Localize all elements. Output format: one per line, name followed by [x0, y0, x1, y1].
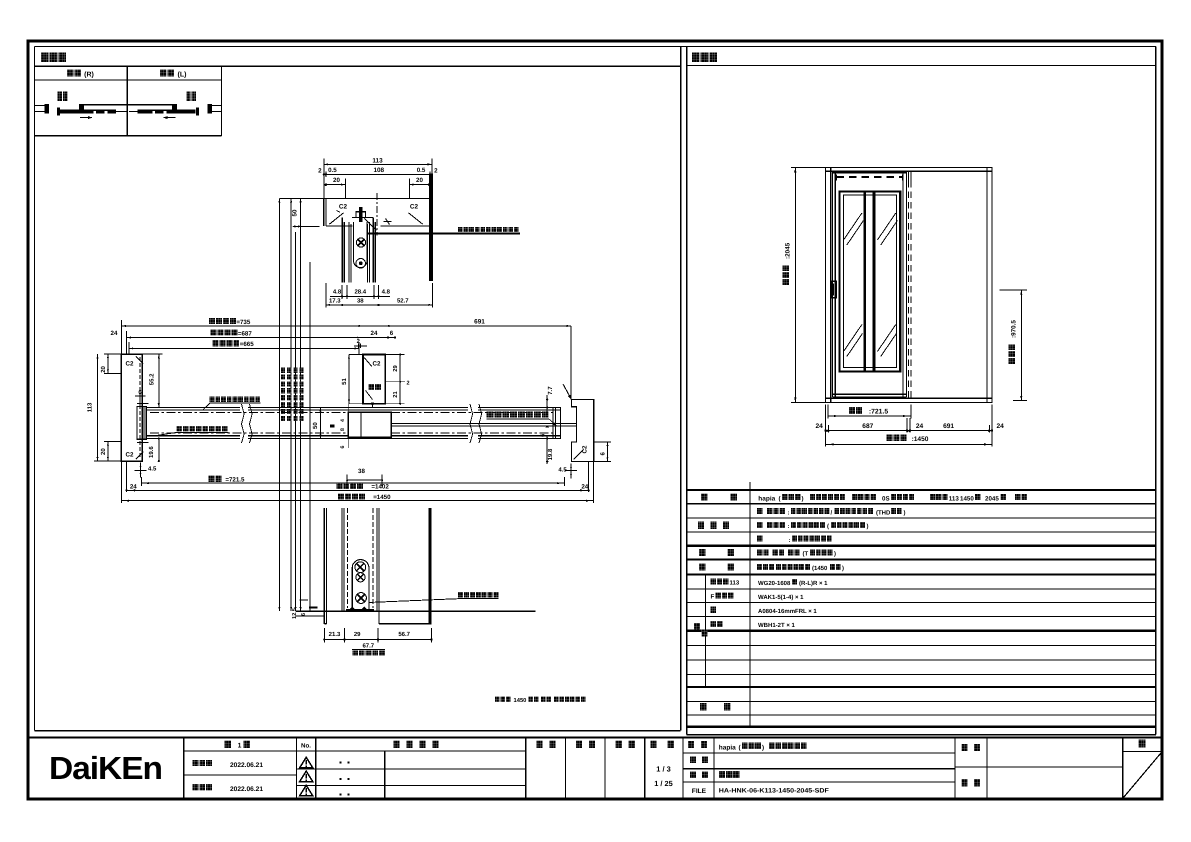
height dim labels rotated: [281, 368, 285, 373]
svg-text:(T: (T: [803, 551, 809, 558]
top detail dim 20 left: [326, 184, 346, 186]
spec fuzoku value: [757, 564, 762, 570]
spec label totte: [699, 549, 705, 556]
svg-text:24: 24: [111, 330, 118, 337]
spec label fuzoku: [699, 564, 705, 571]
svg-text:): ): [802, 495, 804, 502]
svg-text:29: 29: [354, 631, 361, 638]
kaitei rireki header: [394, 741, 400, 748]
wall line right thick bar: [429, 175, 433, 282]
svg-text:55.2: 55.2: [149, 373, 156, 385]
svg-text:24: 24: [581, 483, 588, 490]
svg-text:2045: 2045: [985, 495, 999, 502]
svg-text:38: 38: [358, 468, 365, 475]
svg-text:=735: =735: [236, 319, 250, 326]
svg-text:29: 29: [392, 365, 399, 372]
top detail lower dims row1: [341, 285, 343, 299]
kakunin header: [576, 741, 582, 748]
seitei date: [193, 760, 199, 766]
dim hikite height 970.5: [1000, 289, 1028, 291]
handle mark plan: [330, 425, 335, 428]
leader S cap left: [176, 426, 182, 432]
svg-text:hapia: hapia: [758, 495, 775, 502]
svg-text::2045: :2045: [785, 242, 792, 259]
height dim bottom ticks: [300, 599, 309, 601]
svg-text:67.7: 67.7: [362, 643, 374, 650]
svg-text:C2: C2: [582, 445, 589, 453]
svg-text:12.5: 12.5: [292, 608, 298, 619]
svg-text:6: 6: [390, 330, 394, 337]
far right wall line bottom: [428, 508, 431, 624]
svg-text:2: 2: [318, 168, 322, 175]
svg-text::: :: [788, 524, 790, 530]
svg-text:691: 691: [474, 319, 485, 326]
zumei label: [690, 771, 696, 778]
svg-text:108: 108: [373, 167, 384, 174]
svg-text:): ): [867, 523, 869, 530]
kaitei date: [193, 784, 199, 790]
svg-text:691: 691: [943, 423, 954, 430]
FL tick: [309, 606, 318, 608]
door band bottom edges: [146, 435, 240, 437]
plan dim row3 665: [129, 347, 359, 349]
svg-text:=665: =665: [240, 341, 254, 348]
zumei value sanmenzu: [719, 771, 725, 778]
svg-text:): ): [834, 551, 836, 558]
hanger rail bracket: [356, 212, 366, 218]
dai 1 han: [225, 741, 231, 748]
cell R mini plan diagram: [58, 92, 62, 101]
svg-text:(R-L)R × 1: (R-L)R × 1: [799, 580, 828, 587]
plan bottom dim door width: [209, 476, 215, 482]
dim 50 door thickness: [316, 407, 326, 409]
svg-text:4.5: 4.5: [148, 465, 157, 472]
svg-text:=1402: =1402: [371, 484, 389, 491]
dim 29-21 post right: [399, 355, 401, 404]
svg-text:6: 6: [301, 613, 307, 616]
hanger rail dashed: [837, 176, 903, 178]
hinban label: [690, 756, 696, 763]
pocket edge lines: [907, 172, 909, 181]
dim 113 left jamb: [94, 460, 121, 462]
rail leader line: [367, 233, 520, 235]
leader S cap right: [487, 412, 494, 418]
svg-text:WG20-1608: WG20-1608: [758, 580, 791, 587]
svg-text:113: 113: [949, 495, 960, 502]
svg-text:): ): [904, 509, 906, 516]
title no-hist rows: [296, 750, 525, 752]
height dim lines group: [278, 198, 280, 611]
danmenzu band line: [35, 65, 681, 67]
glass panel frame: [840, 191, 901, 371]
svg-text:21: 21: [392, 391, 399, 398]
svg-text:C2: C2: [339, 204, 348, 211]
svg-text:1 / 25: 1 / 25: [654, 779, 673, 788]
track lines to pocket: [391, 423, 576, 425]
bottom detail verticals: [323, 508, 325, 624]
svg-text:FILE: FILE: [692, 788, 707, 795]
svg-text:1450: 1450: [514, 697, 527, 704]
header right-sliding R: [67, 69, 74, 76]
plan dim row2 24+687: [127, 337, 362, 339]
svg-text::: :: [788, 510, 790, 516]
svg-text:50: 50: [291, 209, 298, 216]
svg-text:113: 113: [372, 157, 383, 164]
top detail dim 20 right: [409, 184, 429, 186]
svg-text:=687: =687: [238, 330, 252, 337]
kenmei label: [962, 744, 968, 751]
svg-text::970.5: :970.5: [1011, 320, 1018, 338]
spec label biko: [700, 703, 706, 710]
door end cap right: [553, 408, 561, 439]
spec table verticals: [749, 482, 751, 727]
svg-text:2: 2: [407, 381, 410, 387]
svg-text:0.5: 0.5: [328, 167, 337, 174]
dim 20 top left jamb: [104, 353, 121, 355]
door band center dash lines: [150, 412, 348, 414]
svg-text:0.5: 0.5: [417, 167, 426, 174]
meisho label: [688, 741, 694, 748]
spec label hinban: [694, 623, 700, 630]
svg-text:17.3: 17.3: [329, 297, 341, 304]
svg-text:2: 2: [434, 168, 438, 175]
top detail dim 113: [324, 163, 432, 165]
door top section verticals: [341, 218, 343, 283]
center post section: [363, 355, 385, 404]
rail center line: [376, 193, 378, 236]
svg-text:2022.06.21: 2022.06.21: [230, 786, 263, 793]
dim toita 721.5: [849, 407, 855, 414]
svg-text::721.5: :721.5: [869, 409, 888, 416]
svg-text:687: 687: [862, 423, 873, 430]
spec shiage row3 value: [757, 536, 762, 542]
svg-text:DaiKEn: DaiKEn: [49, 750, 162, 786]
note below plan: [495, 697, 500, 702]
svg-text:C2: C2: [126, 452, 134, 459]
direction table frame: [35, 79, 222, 81]
floor line FL: [296, 610, 536, 612]
center post label: [368, 384, 374, 390]
svg-text:28.4: 28.4: [354, 289, 366, 296]
title name col rows: [683, 752, 955, 754]
plan bottom dim 1450: [338, 493, 344, 499]
svg-text:6: 6: [340, 445, 346, 448]
spec label shiage: [698, 522, 704, 529]
svg-text:(: (: [827, 523, 829, 530]
post down arrow: [371, 403, 374, 408]
plan top extension lines: [121, 320, 123, 354]
shonin header: [537, 741, 543, 748]
guide rollers: [355, 562, 366, 573]
warning triangles: [300, 757, 313, 768]
dim 51 post: [348, 355, 350, 404]
door band break marks: [242, 404, 253, 443]
svg-text::: :: [789, 538, 791, 544]
svg-text:24: 24: [371, 330, 378, 337]
svg-text:38: 38: [357, 297, 364, 304]
cell L mini plan diagram: [186, 92, 190, 101]
dim 19.8 right: [546, 435, 548, 464]
svg-text:1450: 1450: [960, 495, 974, 502]
title block top line: [28, 736, 1162, 738]
leader tategu note: [210, 397, 215, 402]
shomenzu band line: [687, 65, 1156, 67]
svg-text:No.: No.: [301, 742, 311, 749]
left jamb plan: [121, 354, 142, 461]
elevation door leaf: [832, 171, 834, 397]
sakusei header: [616, 741, 622, 748]
hanger diagonal: [365, 219, 377, 231]
dim 55.2 left: [142, 353, 162, 355]
svg-text:HA-HNK-06-K113-1450-2045-SDF: HA-HNK-06-K113-1450-2045-SDF: [719, 787, 829, 794]
svg-text:C2: C2: [126, 361, 134, 368]
svg-text:C2: C2: [410, 204, 419, 211]
title kenmei row: [955, 766, 1123, 768]
svg-text:): ): [842, 565, 844, 572]
dim naikodaka 2045: [791, 167, 826, 169]
svg-text:hapia: hapia: [719, 744, 736, 751]
svg-text:51: 51: [341, 378, 348, 385]
spec sub labels: [711, 579, 716, 585]
svg-text:4.5: 4.5: [558, 466, 567, 473]
svg-text:C2: C2: [373, 361, 381, 368]
svg-text:56.7: 56.7: [398, 631, 410, 638]
svg-text:24: 24: [816, 423, 824, 430]
svg-text:20: 20: [333, 177, 340, 184]
svg-text:4.8: 4.8: [382, 289, 391, 296]
svg-text:113: 113: [730, 580, 740, 587]
door end cap left: [137, 407, 146, 440]
door handle: [831, 281, 836, 298]
bottom detail dims: [323, 628, 325, 643]
danmenzu title: [41, 53, 49, 63]
leader arrow to jamb corner: [563, 384, 571, 399]
svg-text:19.8: 19.8: [547, 448, 554, 460]
door band top edges: [146, 407, 240, 409]
title page cell: [1123, 750, 1162, 752]
spec shiage row2 value: [757, 522, 762, 528]
shomenzu title: [692, 53, 700, 63]
spec table frame: [687, 489, 1156, 491]
svg-text:F: F: [711, 594, 715, 601]
plan dim row2 right 24-6: [353, 337, 395, 339]
right jamb plan with notch: [571, 400, 593, 462]
elevation outer frame: [826, 168, 993, 403]
flat rail profile: [348, 607, 368, 611]
svg-text:(R): (R): [84, 71, 94, 79]
svg-text:24: 24: [997, 423, 1005, 430]
svg-text:20: 20: [100, 448, 107, 455]
svg-text:WBH1-2T × 1: WBH1-2T × 1: [758, 622, 796, 629]
spec totte value: [757, 549, 762, 555]
svg-text:50: 50: [312, 422, 319, 429]
rail leader label tsuridorail: [458, 227, 463, 232]
svg-text:WAK1-5(1-4) × 1: WAK1-5(1-4) × 1: [758, 594, 804, 601]
dim sotowaku 1450: [887, 435, 893, 442]
top detail lower dims row2: [325, 283, 327, 308]
shukushaku header: [650, 741, 656, 748]
svg-text:113: 113: [86, 402, 93, 412]
svg-text::1450: :1450: [912, 436, 929, 443]
spec shiage row1 value: [757, 508, 762, 514]
rev row dots: [340, 762, 342, 764]
svg-text:7.7: 7.7: [547, 386, 554, 395]
flat rail leader: [458, 592, 463, 598]
svg-text:1: 1: [238, 743, 242, 750]
datum tick right of door: [384, 221, 392, 223]
svg-text:2022.06.21: 2022.06.21: [230, 762, 263, 769]
svg-text:(1450: (1450: [812, 565, 828, 572]
svg-text:4.8: 4.8: [333, 289, 342, 296]
dim 6 right jamb: [594, 441, 611, 443]
svg-text:=1450: =1450: [373, 494, 391, 501]
dim 7.7 right: [546, 395, 548, 414]
svg-text:24: 24: [130, 483, 137, 490]
section divider double line: [680, 47, 682, 731]
top detail dim row 2-0.5-108: [324, 173, 432, 175]
svg-text:(L): (L): [178, 71, 187, 79]
svg-text:1 / 3: 1 / 3: [656, 764, 670, 773]
title col lines: [183, 738, 185, 800]
title rev-left rows: [184, 750, 297, 752]
top rail header body: [324, 198, 429, 200]
svg-text:=721.5: =721.5: [225, 477, 245, 484]
dim 20 bottom left jamb: [104, 441, 121, 443]
glass reflection marks right pane: [877, 213, 895, 240]
door end box at post: [348, 412, 391, 437]
glass mullion: [863, 192, 866, 370]
projection line right jamb: [570, 326, 572, 400]
svg-text:20: 20: [100, 365, 107, 372]
hanger plate with rollers: [354, 222, 367, 268]
svg-text:8: 8: [340, 428, 346, 431]
svg-text:A0804-16mmFRL × 1: A0804-16mmFRL × 1: [758, 608, 817, 615]
svg-text:): ): [762, 744, 764, 751]
spec label yoshiki: [701, 494, 708, 501]
header left-sliding L: [160, 69, 167, 76]
plan dim row1 735+691: [122, 325, 571, 327]
svg-text:0S: 0S: [882, 495, 890, 502]
svg-text:4: 4: [340, 419, 346, 422]
glass reflection marks left pane: [844, 213, 862, 240]
svg-text:21.3: 21.3: [329, 631, 341, 638]
svg-text:19.6: 19.6: [148, 446, 155, 458]
floor guide plate: [352, 560, 369, 610]
svg-text:20: 20: [416, 177, 423, 184]
inner border frame: [35, 46, 1156, 48]
dim 18.6 left: [158, 438, 160, 461]
page label: [1139, 740, 1146, 748]
svg-text:(THD: (THD: [876, 509, 891, 516]
svg-text:52.7: 52.7: [397, 297, 409, 304]
svg-text:24: 24: [916, 423, 924, 430]
tanto label: [962, 779, 968, 786]
